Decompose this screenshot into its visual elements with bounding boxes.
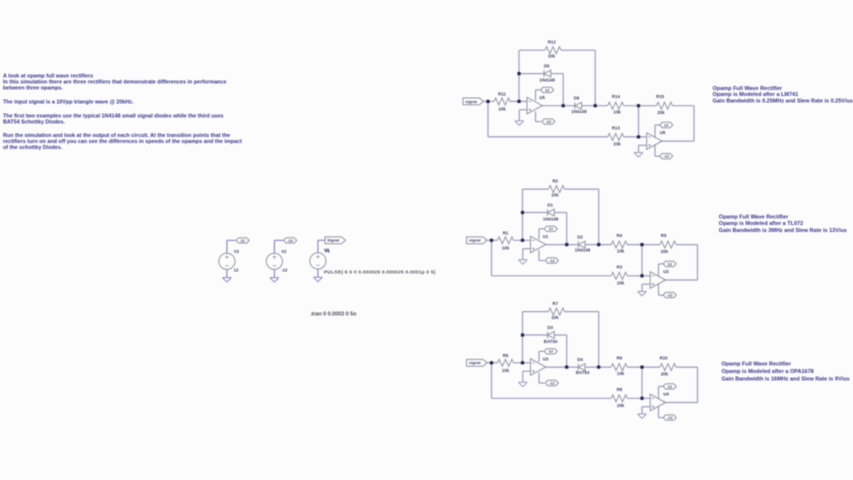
svg-text:-12: -12 — [549, 258, 556, 263]
svg-text:Opamp is Modeled after a OPA16: Opamp is Modeled after a OPA1678 — [722, 369, 814, 375]
svg-text:12: 12 — [667, 261, 672, 266]
svg-text:R14: R14 — [612, 94, 621, 99]
svg-text:R4: R4 — [617, 233, 623, 238]
svg-text:-12: -12 — [667, 415, 674, 420]
svg-text:Gain Bandwidth is 0.25MHz and: Gain Bandwidth is 0.25MHz and Slew Rate … — [713, 99, 853, 105]
svg-text:10k: 10k — [502, 368, 510, 373]
svg-text:20k: 20k — [661, 371, 669, 376]
svg-text:Gain Bandwidth is 16MHz and Sl: Gain Bandwidth is 16MHz and Slew Rate is… — [722, 377, 850, 383]
svg-text:10k: 10k — [551, 315, 559, 320]
svg-text:Opamp is Modeled after a TL072: Opamp is Modeled after a TL072 — [719, 221, 803, 227]
svg-text:R11: R11 — [498, 92, 506, 97]
svg-text:20k: 20k — [657, 110, 665, 115]
svg-text:1N4148: 1N4148 — [575, 248, 591, 253]
svg-text:R12: R12 — [548, 40, 557, 45]
svg-text:Signal: Signal — [327, 238, 339, 243]
svg-text:R6: R6 — [503, 353, 509, 358]
svg-text:R10: R10 — [660, 355, 669, 360]
svg-text:U2: U2 — [663, 269, 669, 274]
svg-text:U3: U3 — [543, 357, 549, 362]
svg-text:V2: V2 — [281, 249, 287, 254]
svg-text:-12: -12 — [663, 154, 670, 159]
svg-text:20k: 20k — [661, 249, 669, 254]
svg-text:PULSE(-5 5 0 0.000025 0.000025: PULSE(-5 5 0 0.000025 0.000025 0.0001p 0… — [324, 270, 436, 275]
svg-text:D6: D6 — [574, 95, 580, 100]
svg-text:Opamp Full Wave Rectifier: Opamp Full Wave Rectifier — [713, 86, 783, 92]
svg-text:R15: R15 — [656, 94, 665, 99]
svg-text:10k: 10k — [548, 54, 556, 59]
svg-text:U1: U1 — [543, 234, 549, 239]
svg-text:Gain Bandwidth is 3MHz and Sle: Gain Bandwidth is 3MHz and Slew Rate is … — [719, 228, 847, 234]
svg-text:R3: R3 — [617, 265, 623, 270]
svg-text:10k: 10k — [502, 246, 510, 251]
svg-text:20k: 20k — [613, 141, 621, 146]
svg-text:Opamp Full Wave Rectifier: Opamp Full Wave Rectifier — [719, 215, 789, 221]
svg-text:12: 12 — [548, 226, 553, 231]
svg-text:R2: R2 — [552, 179, 558, 184]
svg-text:1N4148: 1N4148 — [571, 109, 587, 114]
svg-text:Opamp Full Wave Rectifier: Opamp Full Wave Rectifier — [722, 362, 792, 368]
svg-text:V1: V1 — [324, 248, 330, 253]
svg-text:12: 12 — [545, 87, 550, 92]
svg-text:U5: U5 — [539, 95, 545, 100]
svg-text:of the schottky Diodes.: of the schottky Diodes. — [3, 145, 63, 151]
svg-text:12: 12 — [234, 268, 239, 273]
svg-text:R9: R9 — [617, 356, 623, 361]
svg-text:R5: R5 — [661, 233, 667, 238]
svg-text:D5: D5 — [544, 63, 550, 68]
svg-text:10k: 10k — [551, 193, 559, 198]
svg-text:R13: R13 — [612, 126, 621, 131]
svg-text:BAT54 Schottky Diodes.: BAT54 Schottky Diodes. — [3, 119, 65, 125]
svg-text:Opamp is Modeled after a LM741: Opamp is Modeled after a LM741 — [713, 92, 799, 98]
svg-text:10k: 10k — [498, 107, 506, 112]
svg-text:D1: D1 — [547, 202, 553, 207]
svg-text:signal: signal — [465, 99, 477, 104]
svg-text:D2: D2 — [577, 234, 583, 239]
svg-text:12: 12 — [667, 384, 672, 389]
svg-text:10k: 10k — [613, 110, 621, 115]
svg-text:20k: 20k — [617, 403, 625, 408]
svg-text:V3: V3 — [234, 249, 240, 254]
svg-text:10k: 10k — [617, 249, 625, 254]
svg-text:.tran 0 0.0003 0 5n: .tran 0 0.0003 0 5n — [310, 312, 356, 318]
svg-text:-12: -12 — [545, 119, 552, 124]
svg-text:-12: -12 — [667, 293, 674, 298]
svg-text:U4: U4 — [663, 391, 669, 396]
svg-text:R1: R1 — [503, 231, 509, 236]
svg-text:1N4148: 1N4148 — [543, 216, 559, 221]
svg-text:20k: 20k — [617, 280, 625, 285]
svg-text:R7: R7 — [552, 301, 558, 306]
svg-text:signal: signal — [469, 238, 481, 243]
svg-text:The input signal is a 10Vpp tr: The input signal is a 10Vpp triangle wav… — [3, 99, 134, 105]
svg-text:D3: D3 — [547, 325, 553, 330]
svg-text:10k: 10k — [617, 371, 625, 376]
svg-text:12: 12 — [240, 238, 245, 243]
svg-text:12: 12 — [664, 122, 669, 127]
svg-text:U6: U6 — [660, 130, 666, 135]
svg-text:D4: D4 — [577, 357, 583, 362]
svg-text:BAT54: BAT54 — [544, 339, 558, 344]
svg-text:R8: R8 — [617, 387, 623, 392]
svg-text:signal: signal — [469, 360, 481, 365]
svg-text:1N4148: 1N4148 — [539, 77, 555, 82]
svg-text:-12: -12 — [549, 380, 556, 385]
svg-text:-12: -12 — [287, 238, 294, 243]
svg-text:12: 12 — [548, 349, 553, 354]
svg-text:-12: -12 — [281, 268, 288, 273]
svg-text:between three opamps.: between three opamps. — [3, 85, 63, 91]
svg-text:BAT54: BAT54 — [576, 370, 590, 375]
